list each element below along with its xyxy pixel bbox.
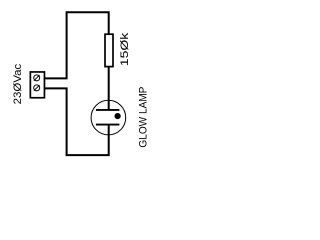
svg-text:15Øk: 15Øk: [119, 32, 131, 66]
svg-text:23ØVac: 23ØVac: [12, 63, 24, 104]
svg-text:GLOW LAMP: GLOW LAMP: [138, 87, 150, 148]
